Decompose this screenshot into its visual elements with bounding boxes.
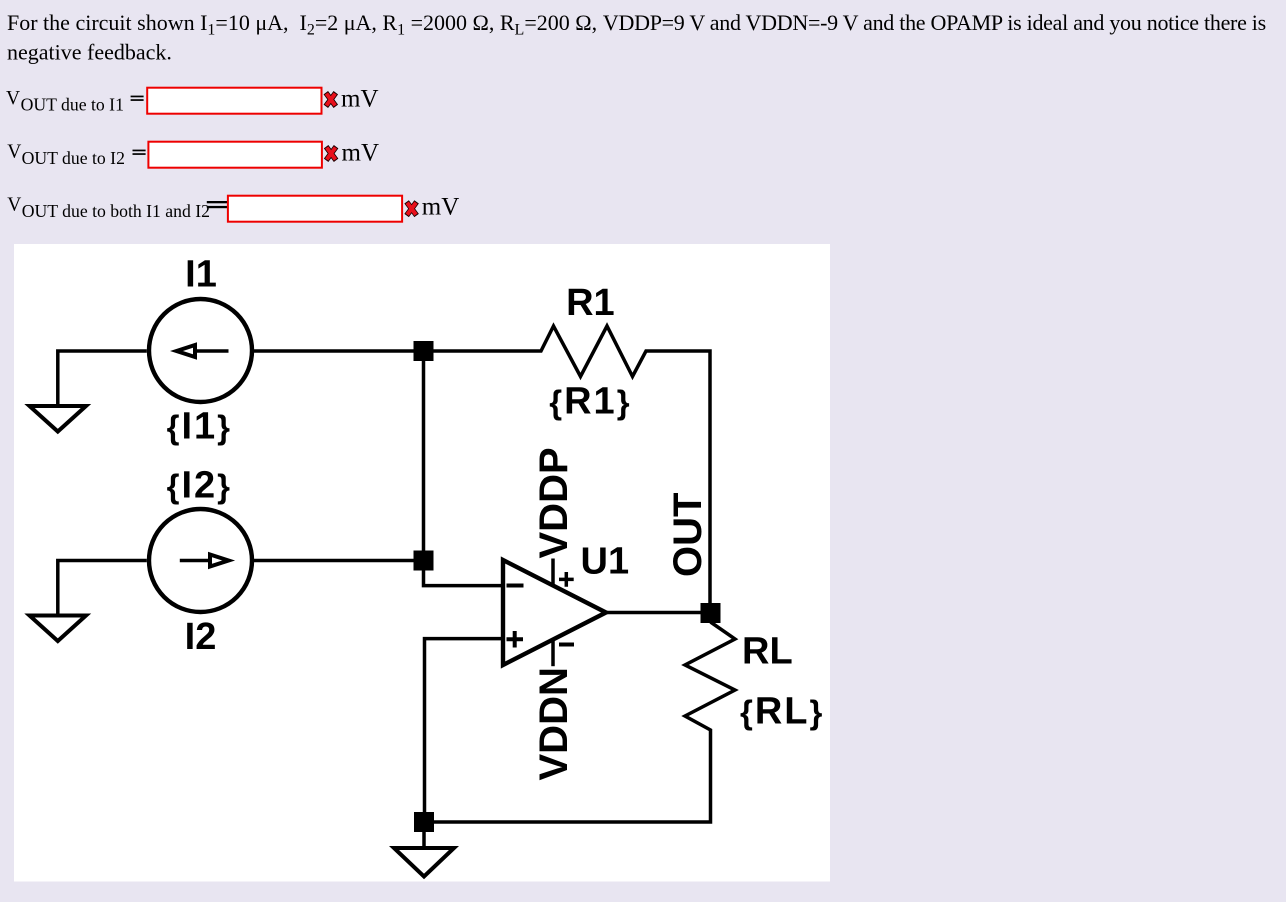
svg-text:V: V [7,194,21,215]
svg-text:{I2}: {I2} [167,465,232,507]
svg-text:VDDP: VDDP [532,447,576,558]
svg-text:V: V [6,88,20,109]
svg-text:OUT due to I2: OUT due to I2 [22,148,125,168]
svg-text:mV: mV [341,86,379,113]
svg-text:For the circuit shown I1=10 μA: For the circuit shown I1=10 μA, I2=2 μA,… [7,10,597,39]
svg-text:V: V [7,142,21,163]
svg-text:RL: RL [742,631,793,673]
svg-text:OUT: OUT [666,493,710,577]
svg-text:VDDP=9 V and VDDN=-9 V and the: VDDP=9 V and VDDN=-9 V and the OPAMP is … [603,10,1266,35]
svg-text:U1: U1 [581,541,630,583]
svg-text:VDDN: VDDN [532,667,576,780]
svg-text:{R1}: {R1} [549,381,631,423]
svg-text:I2: I2 [185,616,217,658]
svg-text:OUT due to I1: OUT due to I1 [21,94,124,114]
svg-text:{RL}: {RL} [740,691,824,733]
svg-text:{I1}: {I1} [167,406,232,448]
svg-text:I1: I1 [185,253,217,295]
svg-text:OUT due to both I1 and I2: OUT due to both I1 and I2 [22,201,210,221]
svg-text:mV: mV [422,193,460,220]
svg-text:negative feedback.: negative feedback. [7,39,172,64]
svg-text:R1: R1 [566,282,615,324]
svg-text:mV: mV [342,140,380,167]
